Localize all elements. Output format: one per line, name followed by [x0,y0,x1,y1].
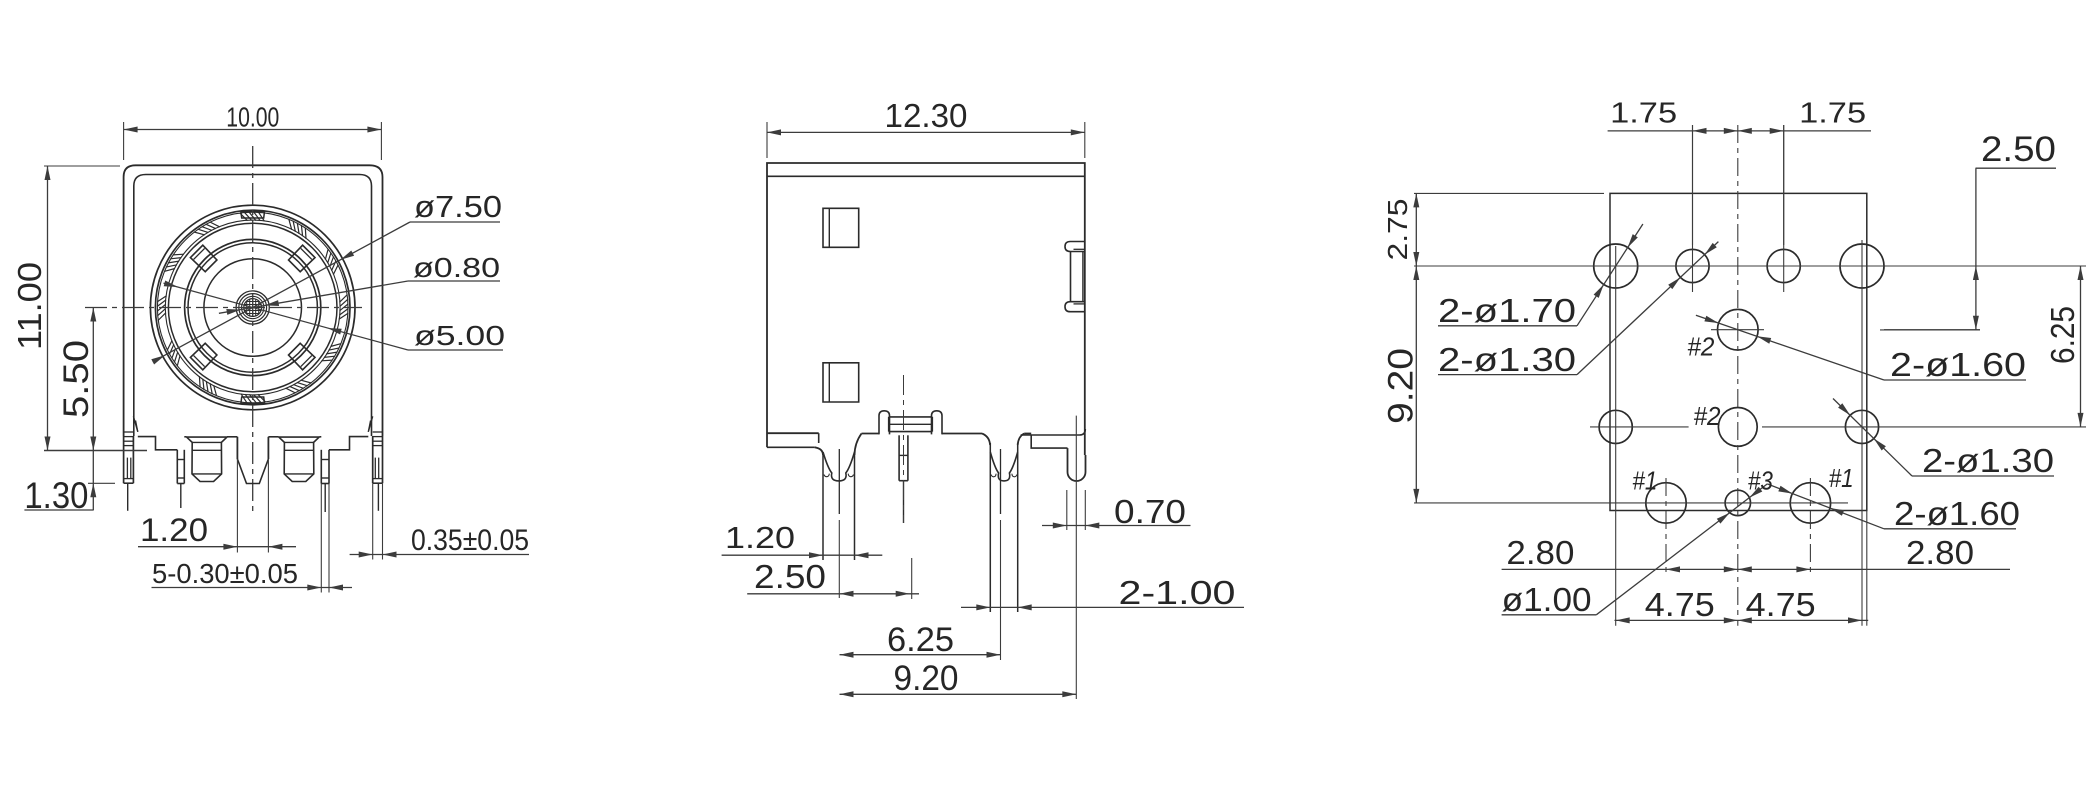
svg-text:6.25: 6.25 [2045,306,2082,364]
svg-text:9.20: 9.20 [1382,348,1421,424]
svg-text:6.25: 6.25 [887,621,954,659]
svg-text:#2: #2 [1687,334,1714,362]
svg-text:2.80: 2.80 [1906,535,1974,572]
svg-text:2-ø1.30: 2-ø1.30 [1438,342,1576,379]
svg-text:10.00: 10.00 [226,102,279,133]
svg-text:ø0.80: ø0.80 [413,252,500,283]
svg-text:12.30: 12.30 [885,98,968,135]
svg-text:1.75: 1.75 [1799,97,1866,129]
svg-text:1.75: 1.75 [1610,97,1677,129]
svg-text:5-0.30±0.05: 5-0.30±0.05 [152,558,298,589]
svg-text:ø1.00: ø1.00 [1502,582,1592,619]
svg-text:2-ø1.60: 2-ø1.60 [1890,347,2026,384]
svg-text:1.20: 1.20 [140,512,208,548]
svg-text:2-1.00: 2-1.00 [1119,575,1236,612]
svg-text:1.20: 1.20 [725,520,795,555]
svg-text:2-ø1.60: 2-ø1.60 [1894,496,2020,533]
svg-text:9.20: 9.20 [894,659,959,698]
svg-text:2.80: 2.80 [1506,535,1574,572]
svg-text:2.50: 2.50 [1981,130,2056,169]
svg-text:11.00: 11.00 [12,262,49,350]
svg-text:#1: #1 [1632,467,1657,495]
svg-text:5.50: 5.50 [57,340,96,418]
svg-text:#3: #3 [1748,467,1774,495]
svg-text:1.30: 1.30 [24,475,88,516]
svg-text:2.50: 2.50 [754,559,826,596]
svg-text:0.70: 0.70 [1114,494,1186,531]
svg-text:ø5.00: ø5.00 [414,320,505,351]
svg-text:ø7.50: ø7.50 [414,189,502,224]
svg-text:#1: #1 [1829,465,1854,493]
svg-text:#2: #2 [1694,403,1721,431]
svg-text:2.75: 2.75 [1382,199,1413,261]
svg-text:4.75: 4.75 [1645,587,1715,624]
svg-text:2-ø1.30: 2-ø1.30 [1922,443,2054,480]
svg-text:2-ø1.70: 2-ø1.70 [1438,293,1576,330]
svg-text:4.75: 4.75 [1746,587,1816,624]
svg-text:0.35±0.05: 0.35±0.05 [411,524,529,557]
